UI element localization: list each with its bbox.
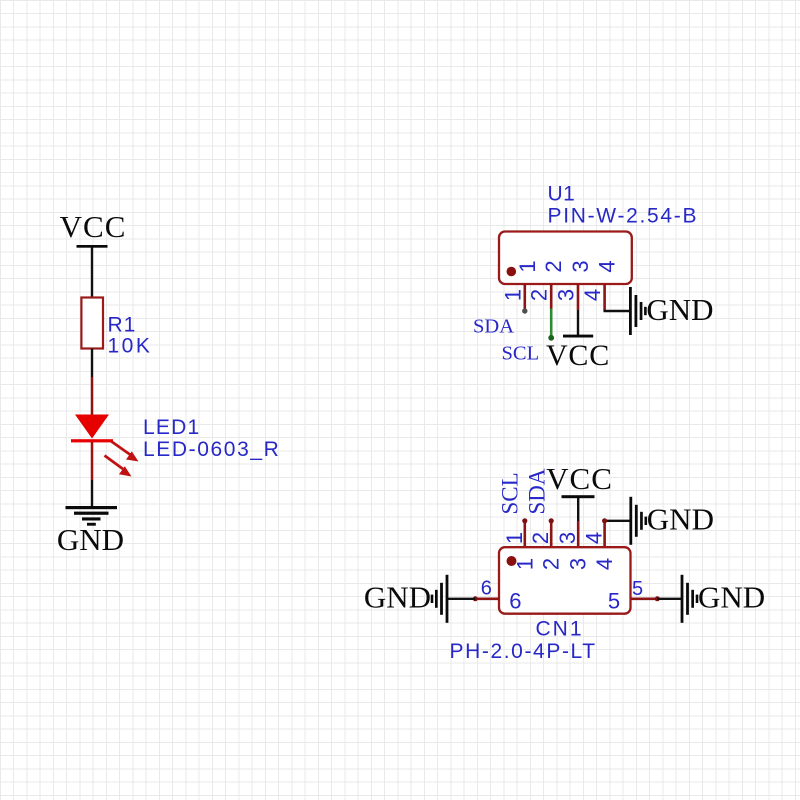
svg-text:GND: GND	[647, 502, 714, 537]
svg-text:1: 1	[500, 289, 525, 301]
svg-text:PH-2.0-4P-LT: PH-2.0-4P-LT	[450, 640, 597, 663]
svg-text:1: 1	[502, 532, 527, 544]
svg-text:3: 3	[566, 558, 591, 570]
U1 pin 2	[550, 284, 553, 309]
svg-text:LED1: LED1	[143, 416, 200, 439]
ground GND (U1)	[629, 287, 714, 335]
wire VCC to R1	[91, 248, 93, 299]
svg-text:VCC: VCC	[546, 461, 613, 496]
svg-text:LED-0603_R: LED-0603_R	[143, 438, 280, 461]
svg-text:4: 4	[582, 532, 607, 544]
power flag VCC (left)	[60, 209, 127, 248]
resistor R1	[81, 298, 103, 349]
svg-text:6: 6	[481, 578, 492, 600]
svg-text:3: 3	[554, 289, 579, 301]
wire CN1 pin 6 to GND	[448, 598, 475, 600]
svg-text:1: 1	[512, 558, 537, 570]
U1 pin 3	[577, 284, 580, 310]
svg-text:4: 4	[592, 558, 617, 570]
CN1 pin 1 end dot	[522, 518, 527, 523]
svg-text:4: 4	[580, 289, 605, 301]
wire U1 pin 3 to VCC	[577, 310, 579, 336]
wire U1 pin 4 to GND	[604, 310, 630, 312]
CN1 pin 5	[631, 597, 658, 600]
U1 pin-1 marker dot	[507, 267, 517, 277]
svg-text:3: 3	[568, 260, 593, 272]
connector CN1 body	[499, 547, 631, 614]
svg-text:GND: GND	[646, 292, 713, 327]
ground GND (CN1 right)	[681, 575, 766, 623]
svg-text:2: 2	[528, 532, 553, 544]
svg-text:PIN-W-2.54-B: PIN-W-2.54-B	[548, 204, 699, 227]
svg-text:10K: 10K	[108, 335, 153, 358]
svg-text:2: 2	[539, 558, 564, 570]
svg-text:VCC: VCC	[546, 339, 610, 372]
CN1 pin 4 end dot	[602, 518, 607, 523]
ground GND (CN1 top)	[629, 497, 714, 545]
CN1 pin 6 end dot	[473, 596, 478, 601]
U1 pin 1	[523, 284, 526, 310]
svg-text:SCL: SCL	[498, 472, 523, 514]
LED1 anode pin	[91, 377, 94, 415]
U1 pin 1 unconnected end dot	[522, 308, 527, 313]
green wire end dot	[548, 335, 554, 341]
svg-text:GND: GND	[57, 522, 124, 557]
svg-text:GND: GND	[364, 580, 431, 615]
wire R1 to LED1	[91, 349, 93, 378]
CN1 pin 2 end dot	[549, 518, 554, 523]
power flag VCC (CN1)	[546, 461, 613, 498]
CN1 pin 4	[603, 521, 606, 547]
LED1 emission arrows	[105, 442, 139, 477]
CN1 pin 2	[550, 521, 553, 547]
connector U1 body	[499, 232, 632, 285]
U1 pin 4	[603, 284, 606, 311]
CN1 pin 3	[577, 521, 580, 547]
CN1 pin 1	[523, 521, 526, 547]
CN1 pin 6	[475, 597, 499, 600]
wire CN1 pin 5 to GND	[657, 598, 681, 600]
wire CN1 pin 4 to GND	[604, 520, 630, 522]
wire CN1 pin 3 to VCC	[577, 498, 579, 522]
svg-text:4: 4	[595, 260, 620, 272]
wire LED1 to GND	[91, 480, 93, 507]
svg-text:2: 2	[527, 289, 552, 301]
svg-text:1: 1	[515, 260, 540, 272]
svg-text:SDA: SDA	[473, 316, 514, 338]
svg-text:5: 5	[608, 589, 620, 614]
CN1 pin 5 end dot	[655, 596, 660, 601]
wire SCL green (U1 pin 2)	[550, 309, 553, 338]
ground GND (left)	[57, 506, 124, 557]
svg-text:6: 6	[509, 589, 521, 614]
svg-text:GND: GND	[698, 580, 765, 615]
ground GND (CN1 left)	[364, 575, 449, 623]
CN1 pin-1 marker dot	[507, 556, 517, 566]
svg-text:CN1: CN1	[536, 618, 584, 641]
svg-text:2: 2	[541, 260, 566, 272]
LED LED1	[71, 415, 113, 443]
svg-text:3: 3	[555, 532, 580, 544]
svg-text:U1: U1	[548, 183, 576, 206]
svg-text:VCC: VCC	[60, 209, 127, 244]
svg-text:5: 5	[632, 578, 643, 600]
LED1 cathode pin	[91, 442, 94, 480]
svg-text:SCL: SCL	[502, 343, 540, 365]
svg-text:R1: R1	[108, 314, 137, 337]
power flag VCC (U1)	[546, 335, 610, 372]
